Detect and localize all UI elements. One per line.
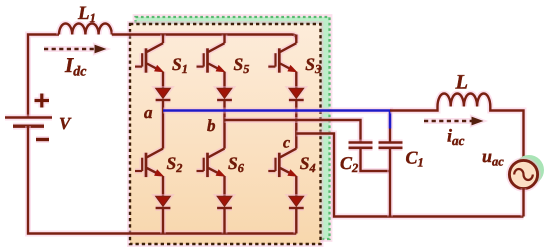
IGBT S1 — [135, 35, 164, 89]
wire: dc source top lead — [28, 35, 59, 117]
inductor L — [438, 93, 491, 106]
capacitor C2 — [349, 143, 391, 172]
capacitor C1 — [379, 129, 403, 217]
svg-text:L: L — [455, 72, 469, 94]
wire: node a to filter (blue) — [163, 111, 390, 129]
IGBT S6 — [197, 120, 226, 196]
label + — [35, 94, 50, 108]
ac source u_ac — [509, 160, 537, 188]
series diode of S6 — [217, 196, 232, 233]
label I_dc — [64, 53, 87, 80]
label i_ac — [447, 126, 465, 149]
label S1 — [172, 54, 188, 76]
series diode of S1 — [156, 88, 171, 110]
label L — [455, 72, 469, 94]
wire: node c to bottom rail — [296, 134, 523, 217]
converter bridge enclosure (dashed box) — [130, 24, 321, 244]
current arrow i_ac — [424, 117, 484, 126]
label S6 — [228, 153, 245, 175]
label S2 — [167, 153, 183, 175]
label C2 — [340, 153, 358, 175]
wire: ac source bottom lead — [521, 188, 527, 216]
wire: C1 node to L — [390, 107, 438, 111]
svg-text:a: a — [144, 103, 153, 122]
series diode of S3 — [289, 88, 304, 133]
wire: L to ac source — [490, 107, 523, 161]
inductor L1 — [59, 23, 112, 34]
series diode of S4 — [289, 196, 304, 233]
green glow behind ac source — [514, 155, 544, 185]
svg-text:V: V — [59, 114, 72, 133]
node b — [207, 116, 216, 135]
node a — [144, 103, 153, 122]
label V — [59, 114, 72, 133]
svg-text:c: c — [283, 135, 290, 152]
label C1 — [406, 148, 424, 170]
label L1 — [77, 3, 96, 25]
label u_ac — [482, 146, 504, 169]
node c — [283, 135, 290, 152]
series diode of S5 — [217, 88, 232, 120]
series diode of S2 — [156, 196, 171, 233]
IGBT S3 — [268, 35, 297, 89]
IGBT S5 — [197, 35, 226, 89]
label S3 — [305, 54, 321, 76]
wire: dc source bottom lead — [28, 126, 296, 234]
svg-text:b: b — [207, 116, 216, 135]
green shadow of bridge enclosure — [136, 17, 330, 239]
wire: node b to C2 — [225, 120, 361, 142]
label S4 — [300, 153, 316, 175]
wire: L1 to bridge top bus — [112, 35, 296, 40]
IGBT S4 — [268, 134, 297, 197]
current arrow I_dc — [44, 45, 107, 54]
label S5 — [234, 54, 250, 76]
dc source V (battery) — [5, 118, 52, 127]
label - — [36, 136, 49, 143]
IGBT S2 — [135, 111, 164, 197]
